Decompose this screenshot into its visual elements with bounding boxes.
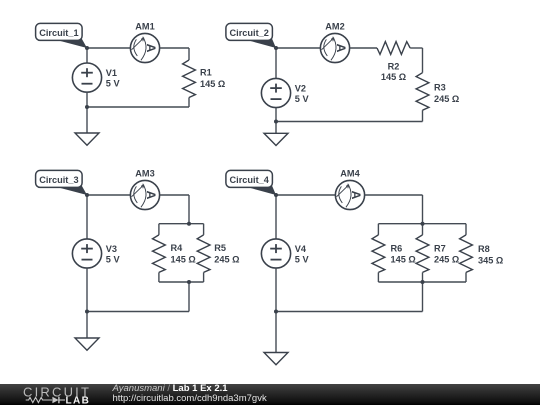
wire xyxy=(422,272,424,282)
wire xyxy=(276,311,423,313)
ground xyxy=(264,133,288,145)
junction dot xyxy=(85,310,89,314)
wire xyxy=(158,272,160,282)
junction dot xyxy=(274,46,278,50)
wire xyxy=(276,194,335,196)
svg-text:A: A xyxy=(144,44,158,53)
voltage source V2 xyxy=(261,78,309,107)
wire xyxy=(275,108,277,134)
wire xyxy=(159,281,204,283)
ammeter AM1 xyxy=(130,21,159,62)
junction dot xyxy=(421,222,425,226)
svg-text:R3: R3 xyxy=(434,83,446,93)
wire xyxy=(160,47,189,49)
ammeter AM4 xyxy=(335,168,364,209)
resistor R7 xyxy=(416,235,459,273)
svg-text:AM1: AM1 xyxy=(135,21,154,31)
svg-text:V4: V4 xyxy=(295,244,307,254)
ammeter AM3 xyxy=(130,168,159,209)
svg-text:245 Ω: 245 Ω xyxy=(214,254,239,264)
resistor R1 xyxy=(183,60,226,98)
svg-text:AM2: AM2 xyxy=(325,21,344,31)
junction dot xyxy=(274,120,278,124)
wire xyxy=(188,48,190,60)
svg-text:R4: R4 xyxy=(171,243,184,253)
junction dot xyxy=(187,222,191,226)
ground xyxy=(75,133,99,145)
footer bar xyxy=(0,384,540,405)
ground xyxy=(75,338,99,350)
wire xyxy=(377,272,379,282)
wire xyxy=(87,194,130,196)
wire xyxy=(158,224,160,235)
svg-text:LAB: LAB xyxy=(66,395,91,405)
resistor R6 xyxy=(372,235,416,273)
svg-text:245 Ω: 245 Ω xyxy=(434,255,459,265)
resistor R3 xyxy=(416,73,459,111)
node flag Circuit_4 xyxy=(226,170,276,195)
svg-text:5 V: 5 V xyxy=(106,255,121,265)
wire xyxy=(188,195,190,224)
junction dot xyxy=(274,310,278,314)
wire xyxy=(275,48,277,79)
voltage source V3 xyxy=(72,239,120,268)
wire xyxy=(86,48,88,63)
wire xyxy=(465,224,467,235)
resistor R4 xyxy=(153,235,196,273)
node flag Circuit_1 xyxy=(36,23,87,48)
wire xyxy=(422,110,424,121)
svg-text:V3: V3 xyxy=(106,244,117,254)
wire xyxy=(365,194,423,196)
svg-text:V2: V2 xyxy=(295,84,306,94)
svg-text:A: A xyxy=(349,191,363,200)
wire xyxy=(188,98,190,108)
wire xyxy=(410,47,422,49)
svg-text:Circuit_4: Circuit_4 xyxy=(230,175,270,185)
svg-text:Circuit_3: Circuit_3 xyxy=(39,175,78,185)
wire xyxy=(378,223,466,225)
svg-text:5 V: 5 V xyxy=(295,94,310,104)
wire xyxy=(86,268,88,338)
voltage source V4 xyxy=(261,239,309,268)
svg-text:R8: R8 xyxy=(478,244,490,254)
wire xyxy=(86,195,88,239)
footer url text xyxy=(113,393,267,404)
svg-text:145 Ω: 145 Ω xyxy=(381,72,406,82)
wire xyxy=(378,281,466,283)
svg-text:5 V: 5 V xyxy=(295,255,310,265)
junction dot xyxy=(85,105,89,109)
wire xyxy=(422,224,424,235)
wire xyxy=(188,282,190,312)
wire xyxy=(203,224,205,235)
resistor R2 xyxy=(377,42,410,83)
junction dot xyxy=(187,280,191,284)
wire xyxy=(203,272,205,282)
svg-text:A: A xyxy=(334,44,348,53)
resistor R8 xyxy=(460,235,504,273)
svg-text:245 Ω: 245 Ω xyxy=(434,94,459,104)
node flag Circuit_3 xyxy=(36,170,87,195)
svg-text:145 Ω: 145 Ω xyxy=(391,255,416,265)
wire xyxy=(276,121,423,123)
wire xyxy=(86,92,88,133)
voltage source V1 xyxy=(72,63,120,92)
ammeter AM2 xyxy=(320,21,349,62)
junction dot xyxy=(274,193,278,197)
logo resistor-diode mark xyxy=(26,397,52,402)
svg-text:R6: R6 xyxy=(391,243,403,253)
node flag Circuit_2 xyxy=(226,23,276,48)
wire xyxy=(377,224,379,235)
svg-text:Circuit_1: Circuit_1 xyxy=(39,28,78,38)
svg-text:R5: R5 xyxy=(214,243,226,253)
wire xyxy=(422,282,424,312)
wire xyxy=(465,272,467,282)
wire xyxy=(422,48,424,73)
wire xyxy=(350,47,377,49)
svg-text:AM4: AM4 xyxy=(340,168,360,178)
svg-text:A: A xyxy=(144,191,158,200)
footer title text xyxy=(113,383,228,394)
svg-text:145 Ω: 145 Ω xyxy=(171,254,196,264)
svg-text:R1: R1 xyxy=(200,68,212,78)
svg-text:AM3: AM3 xyxy=(135,168,154,178)
wire xyxy=(275,195,277,239)
svg-text:Circuit_2: Circuit_2 xyxy=(230,28,269,38)
ground xyxy=(264,353,288,365)
CircuitLab logo xyxy=(0,384,108,405)
junction dot xyxy=(421,280,425,284)
wire xyxy=(276,47,320,49)
wire xyxy=(275,268,277,353)
svg-text:V1: V1 xyxy=(106,68,117,78)
svg-text:R7: R7 xyxy=(434,243,446,253)
svg-text:R2: R2 xyxy=(388,61,400,71)
wire xyxy=(160,194,189,196)
wire xyxy=(87,47,130,49)
resistor R5 xyxy=(197,235,239,273)
junction dot xyxy=(85,46,89,50)
wire xyxy=(422,195,424,224)
wire xyxy=(87,106,189,108)
svg-text:145 Ω: 145 Ω xyxy=(200,79,225,89)
junction dot xyxy=(85,193,89,197)
svg-text:5 V: 5 V xyxy=(106,79,121,89)
wire xyxy=(87,311,189,313)
wire xyxy=(159,223,204,225)
svg-text:345 Ω: 345 Ω xyxy=(478,256,503,266)
